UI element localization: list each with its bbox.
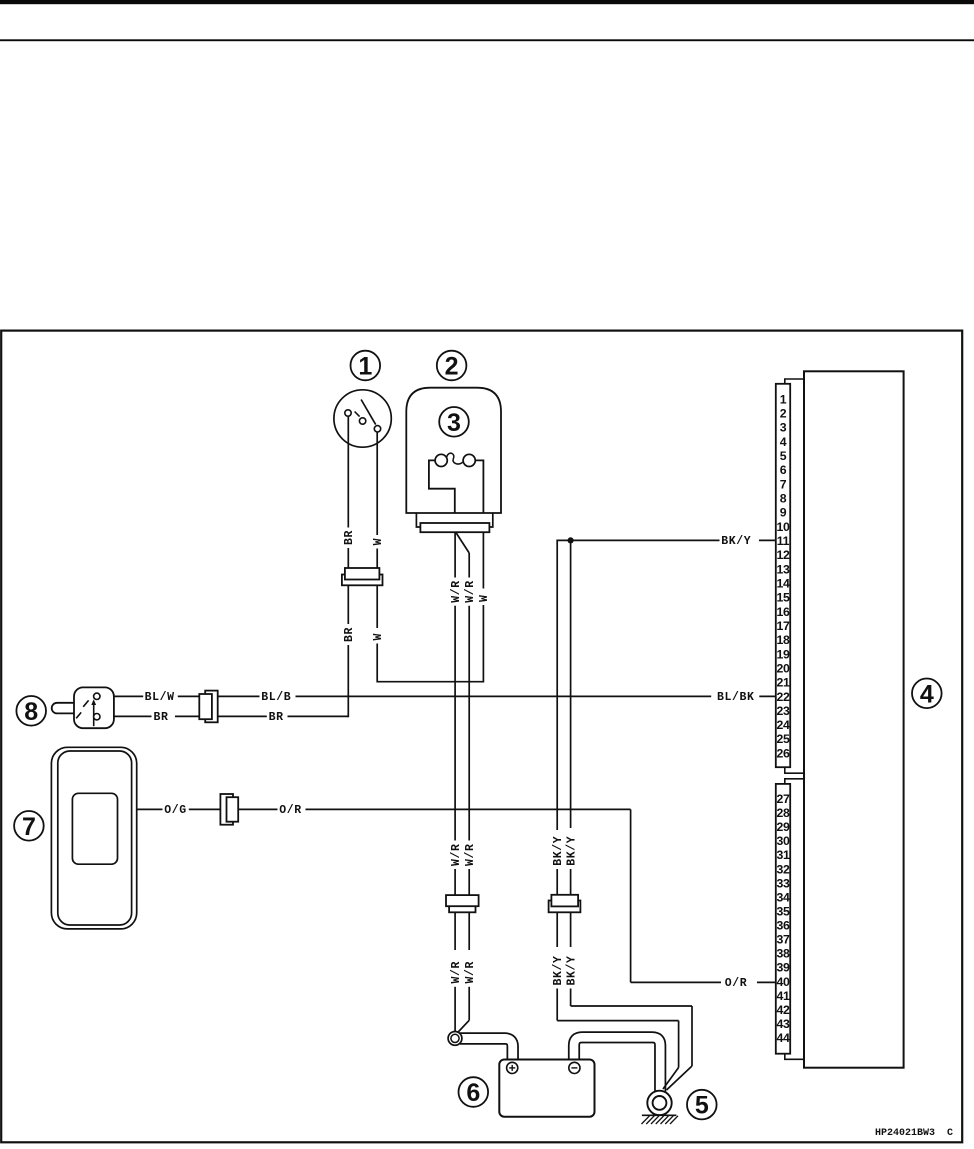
svg-text:33: 33 [776, 876, 790, 890]
svg-text:W/R: W/R [464, 843, 477, 866]
svg-text:BR: BR [343, 627, 356, 642]
svg-text:29: 29 [776, 820, 790, 834]
svg-text:20: 20 [776, 661, 790, 675]
svg-text:BK/Y: BK/Y [565, 836, 578, 866]
svg-text:37: 37 [776, 933, 790, 947]
svg-text:44: 44 [776, 1031, 790, 1045]
svg-text:4: 4 [780, 435, 787, 449]
svg-text:36: 36 [776, 919, 790, 933]
svg-text:34: 34 [776, 890, 790, 904]
svg-text:W: W [478, 594, 491, 602]
svg-text:W/R: W/R [450, 961, 463, 984]
svg-text:BR: BR [343, 530, 356, 545]
svg-text:43: 43 [776, 1017, 790, 1031]
svg-text:15: 15 [776, 591, 790, 605]
svg-text:38: 38 [776, 947, 790, 961]
svg-text:41: 41 [776, 989, 790, 1003]
svg-text:BL/BK: BL/BK [717, 691, 755, 704]
svg-text:O/R: O/R [725, 977, 748, 990]
svg-text:17: 17 [776, 619, 790, 633]
svg-text:BR: BR [154, 711, 169, 724]
svg-text:2: 2 [445, 353, 459, 381]
svg-text:BK/Y: BK/Y [565, 955, 578, 985]
svg-text:W/R: W/R [464, 961, 477, 984]
svg-text:18: 18 [776, 633, 790, 647]
svg-text:BK/Y: BK/Y [552, 955, 565, 985]
svg-text:W/R: W/R [464, 580, 477, 603]
svg-text:3: 3 [447, 409, 461, 437]
svg-text:10: 10 [776, 520, 790, 534]
svg-text:23: 23 [776, 704, 790, 718]
svg-text:16: 16 [776, 605, 790, 619]
svg-text:31: 31 [776, 848, 790, 862]
svg-text:5: 5 [780, 449, 787, 463]
svg-text:32: 32 [776, 862, 790, 876]
svg-text:W/R: W/R [450, 843, 463, 866]
svg-text:8: 8 [24, 698, 38, 726]
svg-text:24: 24 [776, 718, 790, 732]
svg-text:9: 9 [780, 506, 787, 520]
svg-text:8: 8 [780, 492, 787, 506]
svg-text:13: 13 [776, 562, 790, 576]
svg-text:O/R: O/R [279, 804, 302, 817]
svg-text:4: 4 [920, 680, 934, 708]
svg-text:7: 7 [22, 813, 36, 841]
svg-text:BL/B: BL/B [261, 691, 291, 704]
svg-text:21: 21 [776, 676, 790, 690]
svg-text:3: 3 [780, 421, 787, 435]
svg-text:22: 22 [776, 690, 790, 704]
svg-text:2: 2 [780, 407, 787, 421]
svg-text:6: 6 [780, 463, 787, 477]
svg-text:5: 5 [695, 1092, 709, 1120]
svg-text:BL/W: BL/W [145, 691, 175, 704]
svg-text:HP24021BW3 C: HP24021BW3 C [875, 1128, 953, 1139]
svg-text:1: 1 [358, 353, 372, 381]
svg-text:12: 12 [776, 548, 790, 562]
svg-text:26: 26 [776, 746, 790, 760]
svg-text:25: 25 [776, 732, 790, 746]
svg-text:BR: BR [269, 711, 284, 724]
svg-text:40: 40 [776, 975, 790, 989]
svg-text:6: 6 [466, 1079, 480, 1107]
svg-text:30: 30 [776, 834, 790, 848]
svg-text:W/R: W/R [450, 580, 463, 603]
svg-text:14: 14 [776, 577, 790, 591]
svg-text:28: 28 [776, 806, 790, 820]
svg-text:11: 11 [777, 534, 790, 548]
svg-text:W: W [372, 538, 385, 546]
svg-text:BK/Y: BK/Y [721, 535, 751, 548]
svg-text:O/G: O/G [164, 804, 187, 817]
svg-text:W: W [372, 633, 385, 641]
svg-text:27: 27 [776, 792, 790, 806]
svg-text:1: 1 [780, 392, 787, 406]
svg-text:42: 42 [776, 1003, 790, 1017]
svg-text:35: 35 [776, 905, 790, 919]
svg-text:19: 19 [776, 647, 790, 661]
svg-text:BK/Y: BK/Y [552, 836, 565, 866]
svg-text:7: 7 [780, 477, 787, 491]
svg-text:39: 39 [776, 961, 790, 975]
